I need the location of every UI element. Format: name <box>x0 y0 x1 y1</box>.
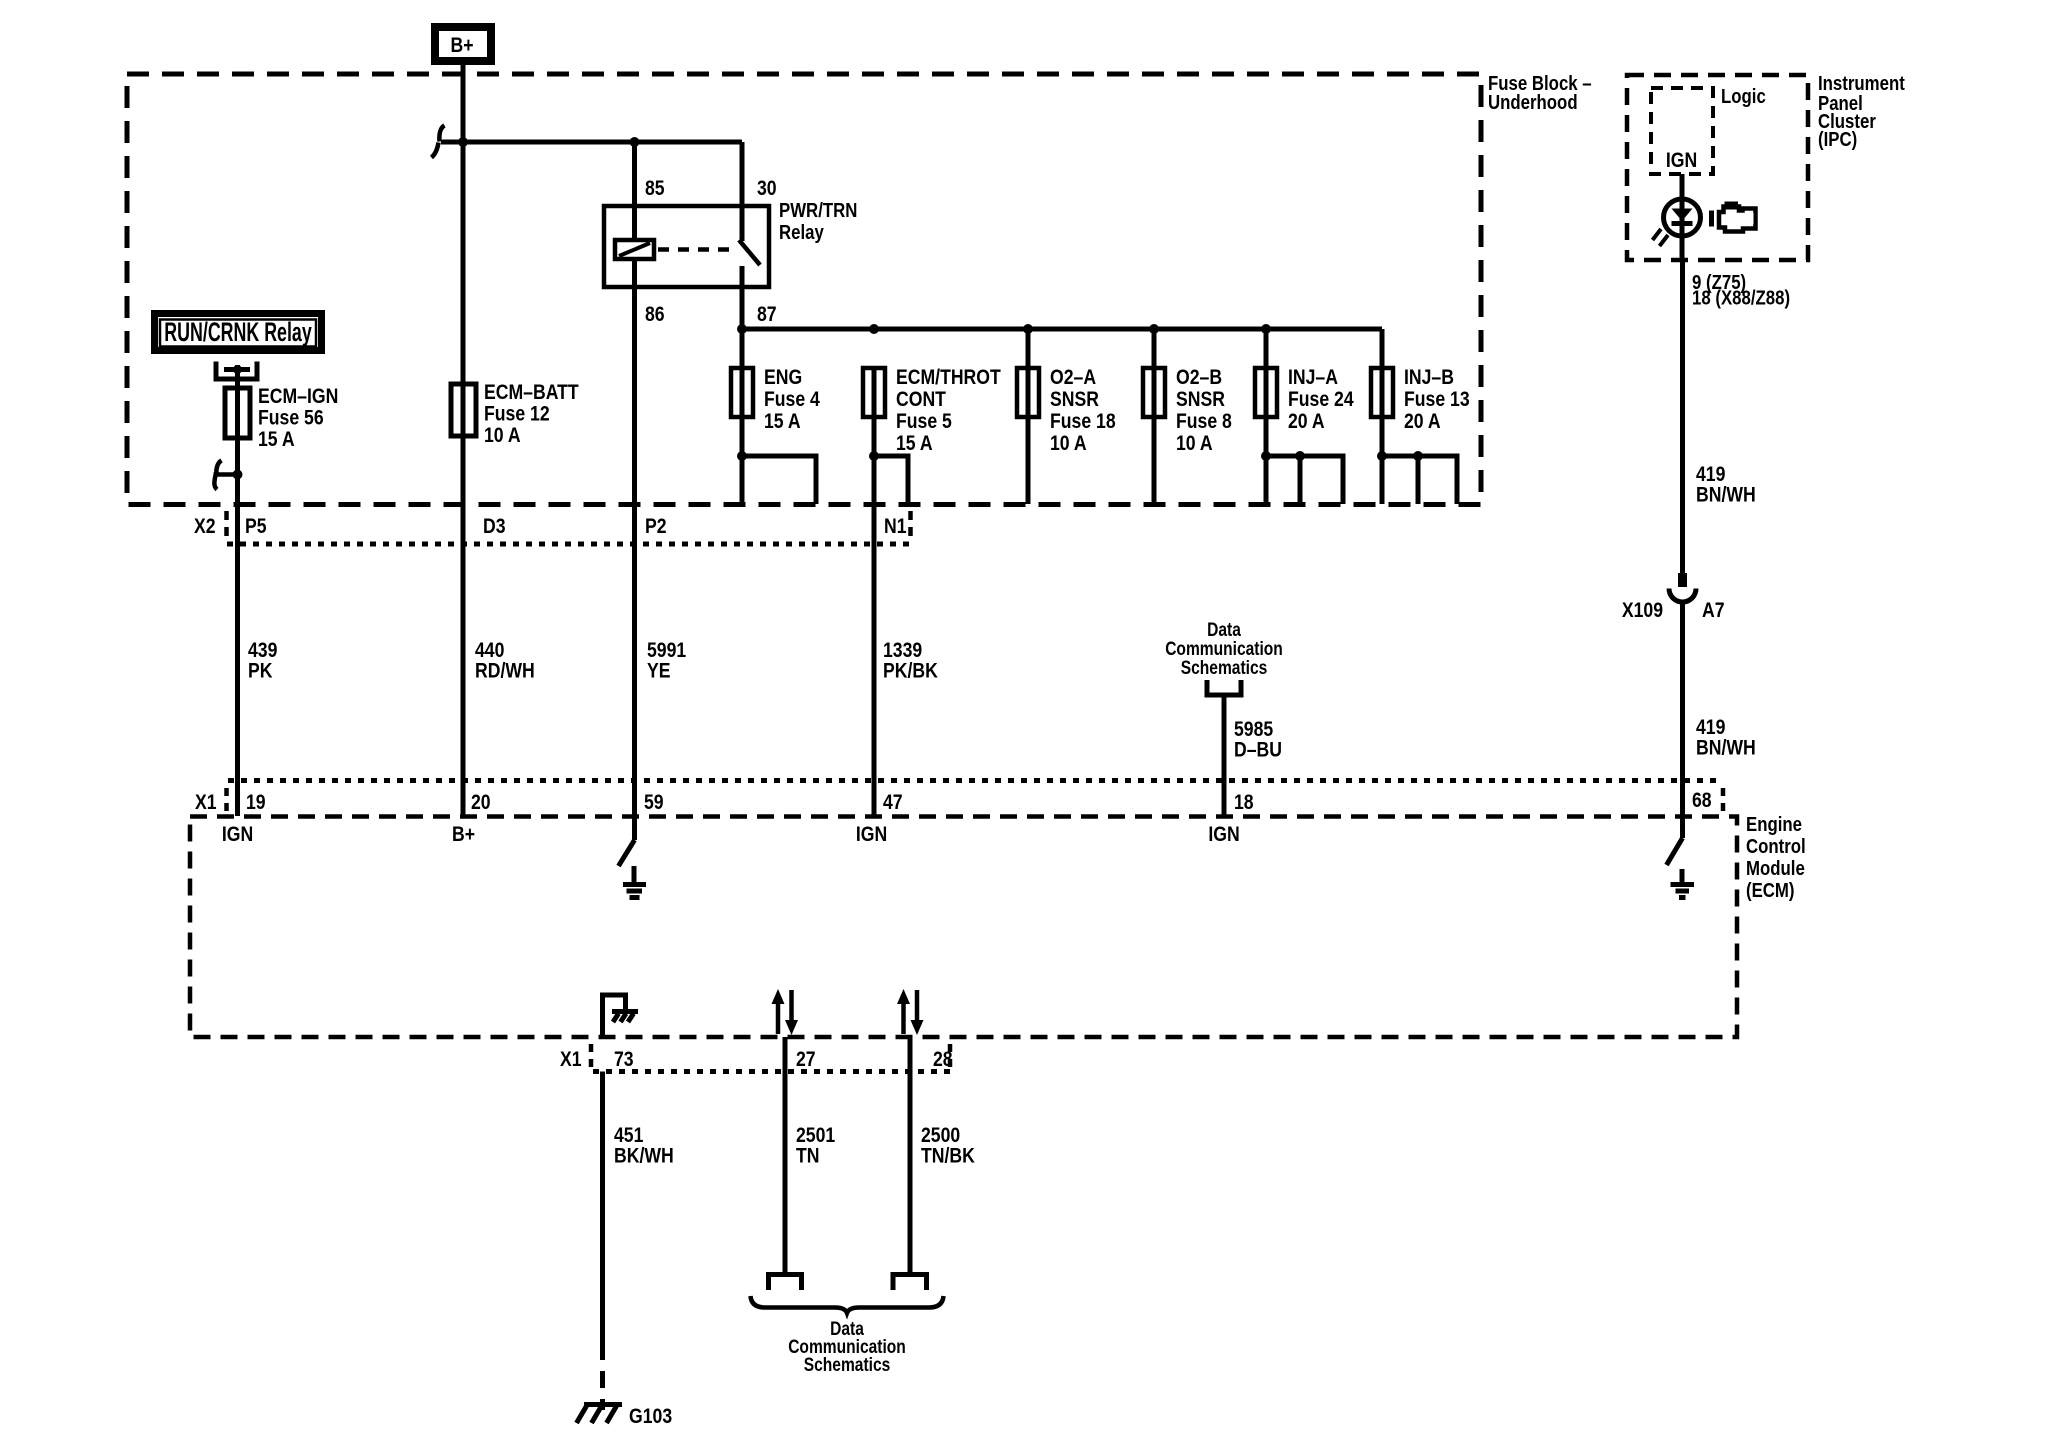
node bus fuse24 <box>1261 324 1271 334</box>
svg-text:X1: X1 <box>195 790 217 814</box>
connector X2 left cap <box>224 511 229 538</box>
svg-text:Engine: Engine <box>1746 812 1802 835</box>
svg-text:PK/BK: PK/BK <box>883 659 939 683</box>
wire relay 87 to fuse bus <box>740 287 745 368</box>
ECM label <box>1746 812 1806 901</box>
svg-text:18: 18 <box>1234 790 1254 814</box>
wire 2500 TN/BK <box>908 1037 913 1274</box>
connector X1 bottom labels <box>560 1047 953 1071</box>
svg-text:X2: X2 <box>194 514 216 538</box>
wire label 5985 D-BU <box>1234 717 1282 762</box>
fuse O2-B SNSR Fuse 8 <box>1143 365 1232 504</box>
svg-text:Fuse 24: Fuse 24 <box>1288 387 1354 411</box>
svg-text:Fuse 5: Fuse 5 <box>896 409 952 433</box>
svg-text:ECM–IGN: ECM–IGN <box>258 384 338 408</box>
bus drop wires to fuses <box>1028 329 1382 368</box>
node bus 87 <box>737 324 747 334</box>
svg-text:IGN: IGN <box>1208 822 1239 846</box>
inline connector X109 pin <box>1678 573 1687 587</box>
connector X1 left cap <box>224 788 229 813</box>
svg-text:19: 19 <box>246 790 266 814</box>
svg-text:Relay: Relay <box>779 220 824 243</box>
X109 labels <box>1622 598 1725 622</box>
wire 2501 TN <box>783 1037 788 1274</box>
svg-text:RUN/CRNK Relay: RUN/CRNK Relay <box>164 316 312 347</box>
wire label 439 PK <box>248 638 277 683</box>
connector X2 right cap <box>908 511 913 541</box>
RUN/CRNK relay contact symbol <box>216 362 257 389</box>
svg-text:SNSR: SNSR <box>1050 387 1099 411</box>
wire 451 dashed tail <box>600 1343 605 1410</box>
svg-text:BN/WH: BN/WH <box>1696 483 1756 507</box>
svg-text:X1: X1 <box>560 1047 582 1071</box>
svg-text:73: 73 <box>614 1047 634 1071</box>
wire logic to lamp <box>1680 174 1685 260</box>
off-page hook on 439 PK <box>214 461 237 490</box>
svg-text:X109: X109 <box>1622 598 1663 622</box>
svg-text:Underhood: Underhood <box>1488 90 1578 113</box>
svg-text:Fuse 13: Fuse 13 <box>1404 387 1470 411</box>
svg-text:IGN: IGN <box>1666 148 1697 172</box>
fuse O2-A SNSR Fuse 18 <box>1017 365 1116 504</box>
connector X2 labels <box>194 514 907 538</box>
svg-text:O2–B: O2–B <box>1176 365 1222 389</box>
fuse INJ-A Fuse 24 <box>1255 365 1354 504</box>
fuse5 output branch <box>874 456 908 504</box>
wire 1339 PK/BK column (N1, pin 47) <box>872 368 877 816</box>
data communication schematics callout (bottom) <box>788 1318 906 1376</box>
wire label 5991 YE <box>647 638 686 683</box>
fuse bus horizontal <box>742 327 1382 332</box>
svg-text:85: 85 <box>645 176 665 200</box>
svg-text:Logic: Logic <box>1721 84 1766 107</box>
wire label 419 BN/WH (upper) <box>1696 462 1756 507</box>
svg-text:G103: G103 <box>629 1404 672 1428</box>
svg-text:ENG: ENG <box>764 365 802 389</box>
svg-text:28: 28 <box>933 1047 953 1071</box>
relay pin labels <box>645 176 777 326</box>
ECM pin function labels <box>222 822 1240 846</box>
off-page terminal pin 28 <box>893 1275 927 1291</box>
svg-text:20 A: 20 A <box>1404 409 1441 433</box>
svg-text:IGN: IGN <box>856 822 887 846</box>
IPC label <box>1818 71 1905 150</box>
fuse ENG output branch <box>742 456 816 504</box>
svg-text:BK/WH: BK/WH <box>614 1144 674 1168</box>
wire 419 BN/WH upper <box>1680 260 1685 573</box>
svg-text:ECM–BATT: ECM–BATT <box>484 380 579 404</box>
svg-text:D–BU: D–BU <box>1234 738 1282 762</box>
svg-text:Module: Module <box>1746 856 1805 879</box>
ECM dashed box <box>190 817 1737 1038</box>
svg-text:PK: PK <box>248 659 273 683</box>
svg-text:15 A: 15 A <box>896 431 933 455</box>
ECM case ground pin 73 <box>603 995 639 1037</box>
connector X1 labels <box>195 788 1712 814</box>
wire 451 BK/WH <box>600 1072 605 1344</box>
svg-text:TN/BK: TN/BK <box>921 1144 976 1168</box>
svg-text:Schematics: Schematics <box>804 1354 891 1376</box>
connector X2 row dotted bottom line <box>227 542 911 547</box>
node bus fuse5 <box>869 324 879 334</box>
connector X1 right cap <box>1721 788 1726 813</box>
svg-text:20 A: 20 A <box>1288 409 1325 433</box>
svg-text:IGN: IGN <box>222 822 253 846</box>
node: branch to B+ wire <box>458 137 468 147</box>
connector X1 bottom right cap <box>948 1044 953 1071</box>
svg-text:Fuse 4: Fuse 4 <box>764 387 820 411</box>
connector X1 row dotted line <box>228 778 1722 783</box>
inline connector X109 socket <box>1669 589 1696 603</box>
svg-text:68: 68 <box>1692 788 1712 812</box>
wire label 1339 PK/BK <box>883 638 939 683</box>
svg-text:Fuse 8: Fuse 8 <box>1176 409 1232 433</box>
wire label 440 RD/WH <box>475 638 535 683</box>
wire B+ vertical (440 RD/WH column, D3, pin 20) <box>461 65 466 816</box>
svg-text:N1: N1 <box>884 514 907 538</box>
callout bracket <box>1207 680 1241 695</box>
svg-text:YE: YE <box>647 659 671 683</box>
svg-text:D3: D3 <box>483 514 506 538</box>
svg-text:B+: B+ <box>450 33 473 57</box>
fuse block underhood dashed box <box>127 74 1481 505</box>
svg-text:(ECM): (ECM) <box>1746 878 1795 901</box>
svg-text:10 A: 10 A <box>484 423 521 447</box>
svg-text:ECM/THROT: ECM/THROT <box>896 365 1001 389</box>
fuse ECM-BATT Fuse 12 <box>451 380 579 447</box>
svg-text:59: 59 <box>644 790 664 814</box>
wire relay 86 down through P2 / pin 59 (5991 YE column) <box>632 287 637 816</box>
svg-text:Schematics: Schematics <box>1181 657 1268 679</box>
fuse INJ-B Fuse 13 <box>1371 365 1470 504</box>
brace data communication <box>751 1296 944 1313</box>
serial data arrows pin 28 <box>897 989 924 1035</box>
svg-text:(IPC): (IPC) <box>1818 127 1857 150</box>
svg-text:10 A: 10 A <box>1050 431 1087 455</box>
wire 419 BN/WH lower <box>1680 602 1685 816</box>
power symbol B+ box <box>435 27 491 61</box>
fuse ENG Fuse 4 <box>731 365 820 504</box>
fuse INJ-A output branch <box>1266 456 1343 504</box>
svg-text:Fuse 56: Fuse 56 <box>258 406 324 430</box>
svg-text:20: 20 <box>471 790 491 814</box>
off-page terminal pin 27 <box>769 1275 802 1291</box>
svg-text:INJ–A: INJ–A <box>1288 365 1338 389</box>
svg-text:10 A: 10 A <box>1176 431 1213 455</box>
svg-text:P2: P2 <box>645 514 667 538</box>
svg-text:TN: TN <box>796 1144 819 1168</box>
svg-text:P5: P5 <box>245 514 267 538</box>
relay switch pin 30 wire <box>740 142 745 287</box>
serial data arrows pin 27 <box>772 989 799 1035</box>
fuse ECM-IGN Fuse 56 <box>225 384 338 816</box>
ground G103 <box>577 1405 623 1424</box>
pin 59 internal ground <box>619 816 647 898</box>
svg-text:86: 86 <box>645 302 665 326</box>
svg-text:A7: A7 <box>1702 598 1725 622</box>
svg-text:15 A: 15 A <box>764 409 801 433</box>
off-page hook on branch <box>432 126 445 158</box>
svg-text:Control: Control <box>1746 834 1806 857</box>
Instrument Panel Cluster dashed box <box>1627 75 1808 260</box>
svg-text:15 A: 15 A <box>258 427 295 451</box>
relay PWR/TRN box <box>604 198 857 287</box>
svg-text:PWR/TRN: PWR/TRN <box>779 198 857 221</box>
data communication schematics callout (top) <box>1165 619 1283 679</box>
relay actuator dashed link <box>658 247 735 252</box>
node: branch to relay coil <box>630 137 640 147</box>
svg-text:Fuse 18: Fuse 18 <box>1050 409 1116 433</box>
svg-text:47: 47 <box>883 790 903 814</box>
svg-text:87: 87 <box>757 302 777 326</box>
wire label 451 BK/WH <box>614 1123 674 1168</box>
node bus fuse18 <box>1023 324 1033 334</box>
fuse INJ-B output branch <box>1382 456 1457 504</box>
connector X1 bottom row dotted line <box>593 1069 951 1074</box>
relay switch blade <box>739 240 760 265</box>
node bus fuse8 <box>1149 324 1159 334</box>
engine icon <box>1712 202 1756 232</box>
wire 5985 D-BU down to pin 18 <box>1222 695 1227 816</box>
relay coil <box>615 240 654 259</box>
RUN/CRNK Relay label box <box>155 314 322 351</box>
connector X1 bottom left cap <box>589 1044 594 1068</box>
svg-text:CONT: CONT <box>896 387 946 411</box>
svg-text:27: 27 <box>796 1047 816 1071</box>
indicator lamp (MIL) <box>1653 199 1701 246</box>
svg-text:18 (X88/Z88): 18 (X88/Z88) <box>1692 286 1790 309</box>
pin 68 internal ground <box>1667 816 1695 898</box>
wire label 2500 TN/BK <box>921 1123 976 1168</box>
wire label 2501 TN <box>796 1123 835 1168</box>
IPC logic dashed box <box>1651 88 1713 174</box>
svg-text:Fuse 12: Fuse 12 <box>484 402 550 426</box>
svg-text:SNSR: SNSR <box>1176 387 1225 411</box>
svg-text:B+: B+ <box>452 822 475 846</box>
fuse block label <box>1488 71 1592 113</box>
svg-text:INJ–B: INJ–B <box>1404 365 1454 389</box>
svg-text:O2–A: O2–A <box>1050 365 1096 389</box>
relay coil wire pin 85 <box>632 142 637 287</box>
svg-text:RD/WH: RD/WH <box>475 659 535 683</box>
wire label 419 BN/WH (lower) <box>1696 715 1756 760</box>
fuse ECM/THROT CONT Fuse 5 <box>863 365 1001 455</box>
IPC pin labels <box>1692 270 1790 308</box>
svg-text:BN/WH: BN/WH <box>1696 736 1756 760</box>
svg-text:30: 30 <box>757 176 777 200</box>
wire branch from B+ to relay <box>441 140 742 145</box>
